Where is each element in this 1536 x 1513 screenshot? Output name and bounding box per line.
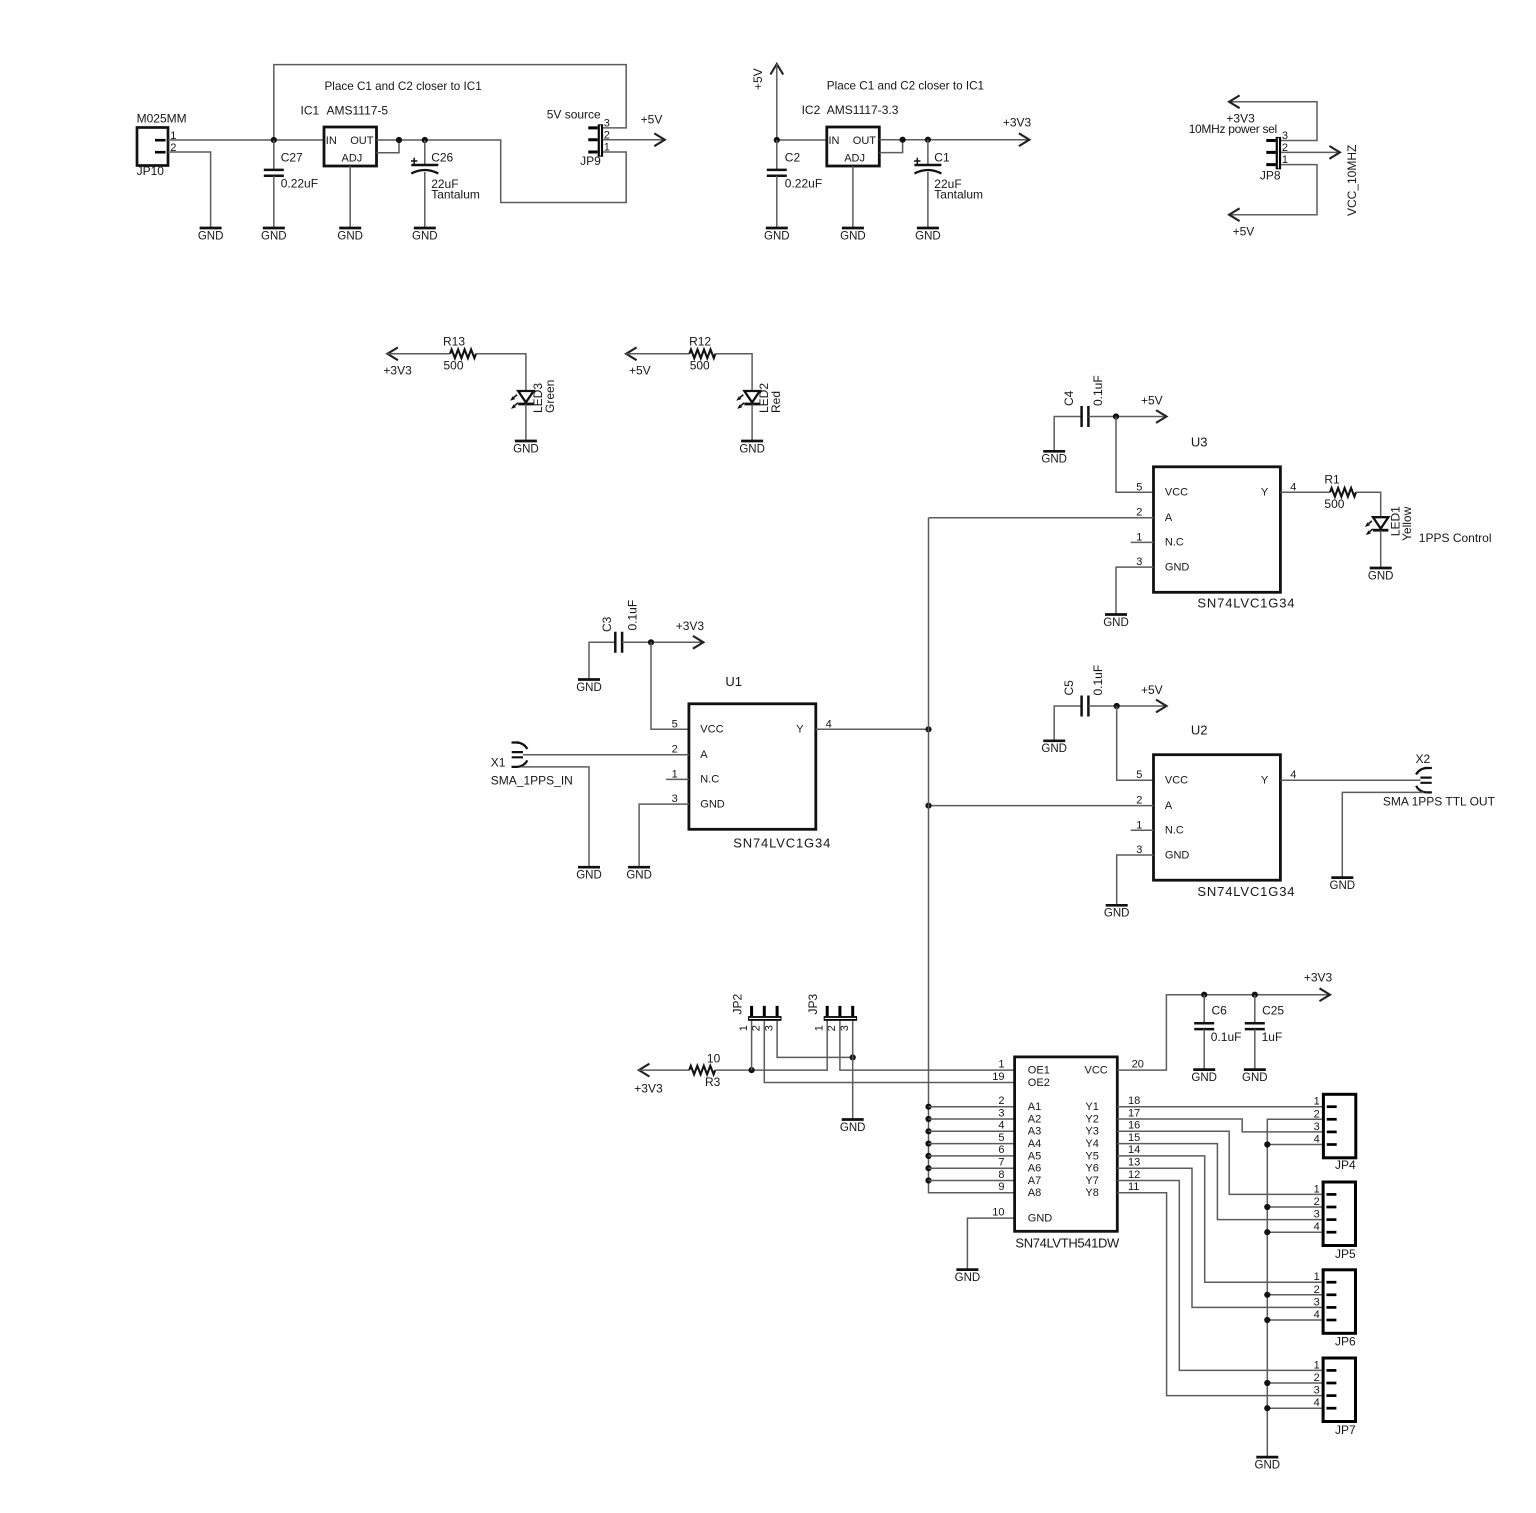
svg-text:+3V3: +3V3 [383, 364, 412, 378]
connector JP5 [1314, 1182, 1356, 1261]
svg-text:A7: A7 [1028, 1175, 1041, 1187]
ground C5 [1041, 741, 1067, 755]
wire U2 Y to X2 [1280, 779, 1420, 781]
svg-text:1uF: 1uF [1262, 1030, 1283, 1044]
wire JP10 pin2 to GND [168, 152, 211, 227]
wire IC2 OUT to +3V3 [879, 139, 1029, 141]
wire +5V to R12 [626, 353, 689, 355]
svg-text:11: 11 [1128, 1181, 1139, 1193]
wire C2 bottom to GND [776, 176, 778, 227]
power +5V arrow into IC2 [751, 64, 783, 90]
svg-text:14: 14 [1128, 1144, 1140, 1156]
ground JP3 [840, 1120, 866, 1134]
svg-text:U3: U3 [1191, 434, 1208, 449]
node bus A7 [925, 1177, 931, 1183]
power +5V arrow U3 [1141, 394, 1167, 423]
wire +5V down to IC2 IN [777, 64, 827, 140]
svg-text:Y1: Y1 [1085, 1101, 1098, 1113]
svg-text:3: 3 [1314, 1385, 1320, 1397]
node U2 A junction [925, 803, 931, 809]
svg-text:U1: U1 [725, 674, 742, 689]
svg-text:JP5: JP5 [1335, 1247, 1356, 1261]
capacitor C4 0.1uF [1062, 375, 1105, 427]
ground C3 [576, 680, 602, 694]
wire Y6 to JP6 pin3 [1117, 1168, 1323, 1307]
svg-text:2: 2 [998, 1095, 1004, 1107]
ground LED2 [739, 441, 765, 455]
node JP5 pin4 [1264, 1229, 1270, 1235]
svg-text:ADJ: ADJ [342, 153, 363, 165]
node C3 junction [648, 639, 654, 645]
svg-text:OUT: OUT [853, 135, 877, 147]
wire signal bus vertical [929, 518, 1015, 1193]
node ADJ2 junction [900, 137, 906, 143]
ground C4 [1041, 451, 1067, 465]
svg-text:2: 2 [1314, 1284, 1320, 1296]
svg-text:SMA_1PPS_IN: SMA_1PPS_IN [491, 773, 573, 787]
wire C6 bottom to GND [1203, 1029, 1205, 1069]
svg-text:Tantalum: Tantalum [934, 188, 983, 202]
wire A3 stub [929, 1130, 1015, 1132]
node JP2 pin1 junction [749, 1067, 755, 1073]
svg-text:4: 4 [1314, 1309, 1320, 1321]
ground C26 [412, 228, 438, 242]
svg-text:+3V3: +3V3 [634, 1082, 663, 1096]
ground C1 [915, 228, 941, 242]
svg-text:VCC: VCC [1085, 1065, 1108, 1077]
svg-text:1: 1 [1314, 1183, 1320, 1195]
svg-text:ADJ: ADJ [844, 153, 865, 165]
svg-text:AMS1117-3.3: AMS1117-3.3 [827, 103, 899, 117]
wire JP6 pin2 gnd stub [1267, 1294, 1323, 1296]
svg-text:3: 3 [604, 117, 610, 129]
node C2 junction [774, 137, 780, 143]
jumper JP3 [806, 993, 857, 1031]
wire GND bus JP connectors [1267, 1119, 1323, 1457]
svg-text:Y3: Y3 [1085, 1126, 1098, 1138]
svg-text:SN74LVC1G34: SN74LVC1G34 [1197, 884, 1295, 899]
svg-text:A6: A6 [1028, 1163, 1041, 1175]
svg-text:Y5: Y5 [1085, 1150, 1098, 1162]
wire C4 left to GND [1054, 417, 1081, 451]
ground X2 [1330, 878, 1356, 892]
svg-text:0.1uF: 0.1uF [1091, 375, 1105, 406]
svg-text:A4: A4 [1028, 1138, 1041, 1150]
wire A6 stub [929, 1167, 1015, 1169]
wire JP7 pin4 gnd stub [1267, 1407, 1323, 1409]
power +3V3 arrow U1 [676, 619, 705, 649]
svg-text:7: 7 [998, 1157, 1004, 1169]
svg-text:C27: C27 [281, 150, 303, 164]
svg-text:Place C1 and C2 closer to IC1: Place C1 and C2 closer to IC1 [325, 80, 482, 93]
ground U2 [1104, 905, 1130, 919]
resistor R12 500 [689, 334, 715, 372]
svg-text:Y6: Y6 [1085, 1163, 1098, 1175]
wire big IC GND pin [967, 1218, 1014, 1269]
svg-text:C25: C25 [1262, 1004, 1284, 1018]
svg-text:JP3: JP3 [806, 993, 820, 1014]
wire U2 GND pin [1117, 855, 1154, 905]
octal buffer SN74LVTH541DW [992, 1057, 1144, 1251]
wire U3 A input from bus [929, 517, 1154, 519]
connector X1 SMA_1PPS_IN [491, 743, 573, 788]
ground U3 [1103, 615, 1129, 629]
node ADJ junction [396, 137, 402, 143]
power +5V arrow R12 [626, 347, 651, 377]
ground X1 [576, 867, 602, 881]
wire JP2 pin2 to OE2 [764, 1021, 1014, 1083]
svg-text:13: 13 [1128, 1157, 1140, 1169]
wire C2 top [776, 140, 778, 170]
svg-text:3: 3 [998, 1107, 1004, 1119]
svg-text:X2: X2 [1416, 752, 1431, 766]
wire LED1 to GND [1380, 531, 1382, 567]
wire A2 stub [929, 1118, 1015, 1120]
connector JP7 [1314, 1358, 1356, 1437]
svg-text:+5V: +5V [1233, 225, 1255, 239]
svg-text:AMS1117-5: AMS1117-5 [327, 104, 389, 118]
capacitor C27 [264, 150, 318, 190]
wire +5V to U3 VCC [1116, 417, 1154, 493]
wire IC1 ADJ feedback [377, 140, 400, 153]
node bus A3 [925, 1128, 931, 1134]
power +3V3 arrow rail [1304, 970, 1333, 1001]
svg-text:C6: C6 [1212, 1004, 1228, 1018]
node JP7 pin4 [1264, 1405, 1270, 1411]
svg-text:U2: U2 [1191, 722, 1208, 737]
svg-text:2: 2 [1314, 1372, 1320, 1384]
wire R13 to LED3 [476, 354, 526, 391]
node C6 junction [1201, 992, 1207, 998]
svg-text:A1: A1 [1028, 1101, 1041, 1113]
node C5 junction [1114, 703, 1120, 709]
svg-text:OE1: OE1 [1028, 1065, 1050, 1077]
svg-text:500: 500 [1324, 497, 1344, 511]
svg-text:5V source: 5V source [547, 107, 601, 121]
wire U3 Y to R1 [1280, 491, 1330, 493]
svg-text:3: 3 [839, 1025, 851, 1031]
svg-text:3: 3 [763, 1025, 775, 1031]
power +5V arrow JP8 [1229, 208, 1254, 238]
wire U2 A input from bus [929, 805, 1154, 807]
svg-text:18: 18 [1128, 1095, 1140, 1107]
wire IC2 GND pin [852, 166, 854, 227]
LED LED2 Red [736, 383, 783, 413]
svg-text:1: 1 [738, 1025, 750, 1031]
svg-text:Place C1 and C2 closer to IC1: Place C1 and C2 closer to IC1 [827, 80, 984, 93]
ground C27 [261, 228, 287, 242]
svg-text:R12: R12 [689, 334, 711, 348]
connector JP4 [1314, 1094, 1356, 1172]
wire +5V to U2 VCC [1117, 706, 1154, 780]
wire A1 stub [929, 1106, 1015, 1108]
svg-text:JP6: JP6 [1335, 1335, 1356, 1349]
wire C5 left to GND [1054, 706, 1081, 740]
wire C25 top [1254, 995, 1256, 1024]
wire Y4 to JP5 pin3 [1117, 1144, 1323, 1220]
svg-text:SMA 1PPS TTL OUT: SMA 1PPS TTL OUT [1383, 794, 1496, 808]
svg-text:GND: GND [1028, 1213, 1053, 1225]
svg-text:SN74LVC1G34: SN74LVC1G34 [733, 836, 831, 851]
wire JP2 pin1 [751, 1021, 753, 1070]
capacitor C26 tantalum [411, 150, 480, 201]
connector JP6 [1314, 1270, 1356, 1349]
wire JP4 pin4 gnd stub [1267, 1144, 1323, 1146]
svg-text:+3V3: +3V3 [1226, 111, 1255, 125]
svg-text:M025MM: M025MM [137, 112, 187, 126]
svg-text:JP8: JP8 [1260, 168, 1281, 182]
svg-text:A5: A5 [1028, 1150, 1041, 1162]
svg-text:19: 19 [992, 1071, 1004, 1083]
node bus A4 [925, 1141, 931, 1147]
svg-text:+5V: +5V [629, 364, 651, 378]
ground IC2 [840, 228, 866, 242]
wire IC2 ADJ feedback [879, 140, 902, 153]
wire JP5 pin2 gnd stub [1267, 1206, 1323, 1208]
svg-text:10: 10 [992, 1206, 1004, 1218]
wire IC1 OUT run to JP9 pin1 [377, 140, 627, 203]
capacitor C3 0.1uF [600, 600, 640, 653]
wire Y8 to JP7 pin3 [1117, 1193, 1323, 1396]
svg-text:5: 5 [998, 1132, 1004, 1144]
svg-text:+5V: +5V [1141, 683, 1163, 697]
wire C6 top [1203, 995, 1205, 1024]
power +5V arrow U2 [1141, 683, 1167, 712]
svg-text:JP2: JP2 [731, 993, 745, 1014]
svg-text:C3: C3 [600, 616, 614, 632]
wire Y7 to JP7 pin1 [1117, 1181, 1323, 1371]
svg-text:0.1uF: 0.1uF [626, 600, 640, 631]
svg-text:C5: C5 [1062, 680, 1076, 696]
node C4 junction [1113, 413, 1119, 419]
wire LED2 to GND [751, 404, 753, 440]
wire Y1 to JP4 pin1 [1117, 1106, 1323, 1108]
ground LED3 [513, 441, 539, 455]
svg-text:JP7: JP7 [1335, 1423, 1356, 1437]
LED LED3 Green [510, 380, 557, 413]
wire JP10 pin1 to IC1 IN [168, 139, 324, 141]
svg-text:500: 500 [690, 358, 710, 372]
LED LED1 Yellow [1365, 506, 1414, 541]
svg-text:4: 4 [1314, 1221, 1320, 1233]
wire +3V3 to U1 VCC [651, 642, 689, 729]
svg-text:3: 3 [1314, 1121, 1320, 1133]
wire JP8 pin2 to VCC_10MHZ [1281, 151, 1340, 153]
svg-text:0.22uF: 0.22uF [785, 177, 822, 191]
svg-text:+3V3: +3V3 [1304, 970, 1333, 984]
wire LED3 to GND [525, 404, 527, 440]
capacitor C1 tantalum [914, 150, 983, 201]
capacitor C25 1uF [1245, 1004, 1285, 1044]
wire C4 right to +5V junction [1088, 416, 1166, 418]
svg-text:0.1uF: 0.1uF [1211, 1030, 1242, 1044]
wire JP8 pin3 to +3V3 [1229, 102, 1317, 141]
svg-text:A2: A2 [1028, 1113, 1041, 1125]
svg-text:OE2: OE2 [1028, 1077, 1050, 1089]
svg-text:IN: IN [829, 135, 840, 147]
power +3V3 arrow IC2 out [1003, 116, 1032, 147]
regulator IC1 AMS1117-5 [301, 104, 389, 166]
svg-text:12: 12 [1128, 1169, 1140, 1181]
ground C2 [764, 228, 790, 242]
wire C26 bottom to GND [424, 172, 426, 227]
wire C27 bottom to GND [273, 176, 275, 227]
ground U1 [626, 867, 652, 881]
wire X1 pin to U1 A [523, 754, 689, 756]
capacitor C5 0.1uF [1062, 665, 1105, 717]
ground LED1 [1368, 568, 1394, 582]
svg-text:0.1uF: 0.1uF [1091, 665, 1105, 696]
svg-text:2: 2 [751, 1025, 763, 1031]
wire C25 bottom to GND [1254, 1029, 1256, 1069]
node JP6 pin4 [1264, 1317, 1270, 1323]
power +5V arrow [641, 113, 665, 147]
buffer U2 SN74LVC1G34 [1131, 722, 1297, 899]
node JP6 pin2 [1264, 1292, 1270, 1298]
wire JP6 pin4 gnd stub [1267, 1319, 1323, 1321]
node JP4 pin4 [1264, 1141, 1270, 1147]
node bus A2 [925, 1116, 931, 1122]
wire +3V3 to R13 [387, 353, 450, 355]
svg-text:2: 2 [1314, 1108, 1320, 1120]
svg-text:1: 1 [814, 1025, 826, 1031]
power +3V3 arrow R3 [634, 1064, 663, 1096]
wire VCC pin20 to +3V3 rail [1117, 995, 1330, 1070]
svg-text:R1: R1 [1324, 473, 1340, 487]
wire R3 to JP3 pin1 pullup [715, 1021, 827, 1070]
resistor R1 500 [1324, 473, 1356, 512]
wire C5 right to +5V junction [1088, 705, 1166, 707]
wire C3 left to GND [589, 642, 615, 679]
svg-text:0.22uF: 0.22uF [281, 177, 318, 191]
wire C1 top [927, 140, 929, 165]
ground SN74LVTH541DW [955, 1270, 981, 1284]
wire C3 right to +3V3 junction [622, 641, 703, 643]
wire Y3 to JP5 pin1 [1117, 1131, 1323, 1194]
svg-text:1PPS Control: 1PPS Control [1419, 531, 1492, 545]
node input junction [271, 137, 277, 143]
svg-text:16: 16 [1128, 1120, 1140, 1132]
svg-text:+5V: +5V [1141, 394, 1163, 408]
jumper JP8 10MHz power sel [1189, 122, 1288, 182]
svg-text:8: 8 [998, 1169, 1004, 1181]
node C25 junction [1252, 992, 1258, 998]
buffer U1 SN74LVC1G34 [666, 674, 832, 850]
svg-text:4: 4 [1314, 1134, 1320, 1146]
svg-text:15: 15 [1128, 1132, 1140, 1144]
svg-text:9: 9 [998, 1181, 1004, 1193]
svg-text:X1: X1 [491, 756, 506, 770]
node JP5 pin2 [1264, 1204, 1270, 1210]
ground C6 [1191, 1070, 1217, 1084]
svg-text:2: 2 [1314, 1196, 1320, 1208]
svg-text:Y7: Y7 [1085, 1175, 1098, 1187]
svg-text:A8: A8 [1028, 1187, 1041, 1199]
wire bypass input to JP9 pin3 [274, 65, 626, 140]
svg-text:JP9: JP9 [580, 154, 601, 168]
regulator IC2 AMS1117-3.3 [802, 103, 899, 166]
wire C27 top [273, 140, 275, 170]
svg-text:Y8: Y8 [1085, 1187, 1098, 1199]
svg-text:+3V3: +3V3 [676, 619, 705, 633]
svg-text:500: 500 [444, 358, 464, 372]
ground C25 [1242, 1070, 1268, 1084]
node bus A6 [925, 1165, 931, 1171]
svg-text:1: 1 [1314, 1359, 1320, 1371]
svg-text:1: 1 [1314, 1271, 1320, 1283]
capacitor C2 [767, 151, 822, 191]
svg-text:+5V: +5V [751, 68, 765, 90]
wire R1 to LED1 [1356, 492, 1381, 517]
svg-text:SN74LVC1G34: SN74LVC1G34 [1197, 596, 1295, 611]
jumper JP2 [731, 993, 782, 1031]
wire IC1 GND pin [349, 166, 351, 227]
resistor R13 500 [443, 334, 476, 372]
svg-text:Tantalum: Tantalum [431, 188, 480, 202]
wire C1 bottom to GND [927, 172, 929, 227]
wire JP2 pin3 to GND net [777, 1021, 853, 1058]
connector JP10 M025MM [137, 112, 187, 179]
node C26 junction [422, 137, 428, 143]
wire JP9 pin2 to +5V [603, 139, 665, 141]
jumper JP9 5V source [547, 107, 610, 168]
node U1 Y junction [925, 726, 931, 732]
buffer U3 SN74LVC1G34 [1131, 434, 1297, 610]
svg-text:C26: C26 [431, 150, 453, 164]
svg-text:3: 3 [1314, 1209, 1320, 1221]
wire C26 top [424, 140, 426, 165]
power +3V3 arrow JP8 [1226, 95, 1255, 125]
svg-text:C4: C4 [1062, 390, 1076, 406]
node JP3 pin3 junction [850, 1054, 856, 1060]
wire U1 Y to bus [816, 728, 929, 730]
svg-text:6: 6 [998, 1144, 1004, 1156]
svg-text:Yellow: Yellow [1400, 506, 1414, 541]
svg-text:+5V: +5V [641, 113, 663, 127]
wire +3V3 to R3 [639, 1069, 689, 1071]
node C1 junction [925, 137, 931, 143]
resistor R3 10 [689, 1052, 720, 1090]
wire JP8 pin1 to +5V [1229, 165, 1317, 215]
svg-text:JP10: JP10 [137, 164, 165, 178]
svg-text:A3: A3 [1028, 1126, 1041, 1138]
node bus A5 [925, 1153, 931, 1159]
svg-text:4: 4 [1314, 1397, 1320, 1409]
svg-text:R3: R3 [705, 1075, 721, 1089]
svg-text:20: 20 [1132, 1058, 1144, 1070]
svg-text:+3V3: +3V3 [1003, 116, 1032, 130]
svg-text:Green: Green [543, 380, 557, 413]
svg-text:1: 1 [604, 141, 610, 153]
svg-text:VCC_10MHZ: VCC_10MHZ [1345, 145, 1359, 216]
wire JP5 pin4 gnd stub [1267, 1231, 1323, 1233]
wire X2 shield to GND [1342, 792, 1424, 876]
wire JP3 pin2 to OE1 [840, 1021, 1015, 1070]
svg-text:SN74LVTH541DW: SN74LVTH541DW [1015, 1236, 1120, 1251]
capacitor C6 0.1uF [1194, 1004, 1241, 1044]
svg-text:3: 3 [1314, 1296, 1320, 1308]
svg-text:Y2: Y2 [1085, 1113, 1098, 1125]
svg-text:17: 17 [1128, 1107, 1140, 1119]
node JP7 pin2 [1264, 1380, 1270, 1386]
svg-text:Y4: Y4 [1085, 1138, 1098, 1150]
ground JP bus [1255, 1457, 1281, 1471]
svg-text:OUT: OUT [350, 135, 374, 147]
svg-text:IN: IN [326, 135, 337, 147]
svg-text:2: 2 [826, 1025, 838, 1031]
svg-text:4: 4 [998, 1120, 1004, 1132]
wire Y2 to JP4 pin3 [1117, 1119, 1323, 1132]
